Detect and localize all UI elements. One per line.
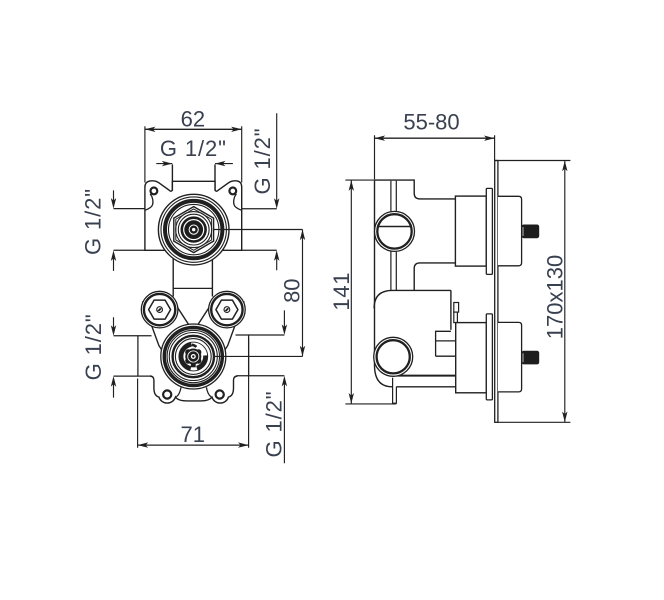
dimension 55-80 line [375, 137, 495, 139]
mounting plate top valve [145, 181, 242, 250]
wall plate [495, 161, 498, 423]
dimension G1/2 nipple line right tail [215, 163, 233, 165]
dimension 80 line [302, 230, 304, 357]
svg-text:62: 62 [181, 107, 205, 132]
plate screw hole right [216, 390, 224, 398]
plate inner contour right [206, 387, 211, 397]
G1/2 dim arrows lower-left port [113, 317, 115, 397]
vertical pipe between valves [173, 251, 212, 297]
plate inner contour left [176, 387, 181, 397]
V body lower valve [143, 297, 244, 370]
plate screw hole left [163, 390, 171, 398]
ear S-contour right [234, 194, 242, 210]
svg-text:G 1/2": G 1/2" [250, 127, 275, 194]
svg-text:G 1/2": G 1/2" [160, 136, 227, 161]
body step bottom [414, 263, 455, 290]
notch blocks [454, 303, 459, 313]
body upper outline [375, 180, 456, 199]
centerline leader top valve [214, 229, 303, 231]
top valve circle 2 [161, 197, 226, 262]
top valve center dot [192, 228, 195, 231]
G1/2 dim arrows lower-right port [283, 310, 285, 463]
boss left hex [149, 300, 171, 319]
top valve hex outer [174, 207, 214, 253]
cartridge interface steps [436, 331, 456, 356]
svg-text:71: 71 [181, 422, 205, 447]
lower valve center [190, 353, 196, 359]
upper port circle [375, 211, 415, 251]
svg-text:80: 80 [279, 278, 304, 302]
top valve circle 5 [178, 214, 209, 245]
svg-text:G 1/2": G 1/2" [81, 313, 106, 380]
lower valve circle 5 [175, 339, 211, 375]
lower valve port stub left [114, 336, 152, 376]
top valve hex inner [176, 209, 212, 250]
svg-text:G 1/2": G 1/2" [261, 390, 286, 457]
lower flange [486, 314, 492, 400]
boss left ring [144, 294, 175, 325]
top port lower edge / plate bottom [114, 249, 277, 251]
boss right hex [216, 300, 238, 319]
upper stem [522, 225, 540, 239]
lower valve rosette [185, 349, 201, 365]
lower valve outer circle [161, 324, 226, 389]
lower valve port stub right [236, 335, 285, 376]
svg-text:170x130: 170x130 [542, 255, 567, 339]
dimension 62 line [145, 128, 242, 130]
top valve dark disc [181, 216, 207, 242]
G1/2 dim arrows top-left port [113, 190, 115, 271]
internal pipe lines upper [391, 181, 396, 212]
extension line right of 62 [241, 126, 243, 182]
top valve circle 3 [169, 204, 219, 254]
boss right ring [211, 294, 242, 325]
upper port slot chord [378, 226, 411, 228]
ear hole left [151, 188, 158, 195]
drain tab [393, 378, 397, 403]
top valve outer circle [158, 194, 229, 265]
thread nipple sides [172, 164, 215, 190]
G1/2 dim arrows top-right port [276, 113, 278, 270]
body left edge with bottom fillet [375, 180, 456, 387]
bottom plate outline [150, 376, 237, 403]
ear hole right [229, 188, 236, 195]
lower valve claw arc B [197, 355, 206, 368]
upper cartridge cylinder [455, 196, 486, 266]
lower valve circle 3 [167, 330, 219, 382]
lower valve dark ring [164, 328, 222, 386]
svg-text:G 1/2": G 1/2" [81, 188, 106, 255]
dimension 71 extension lines [138, 338, 249, 448]
lower body right edge [450, 290, 452, 329]
dimension 71 line [138, 444, 249, 446]
svg-text:141: 141 [329, 272, 354, 311]
bottom plate fill [150, 376, 237, 403]
lower valve claw arc A [181, 345, 191, 369]
lower port circle [374, 337, 413, 376]
extension line left of 62 [144, 126, 146, 182]
lower cap [498, 322, 522, 392]
dimension 170x130 extensions [495, 161, 571, 423]
top port left upper edge [114, 208, 145, 210]
svg-text:55-80: 55-80 [403, 109, 459, 134]
lower valve dark ring 2 [173, 336, 214, 377]
dimension 170x130 line [564, 161, 566, 423]
top valve dark ring [165, 201, 222, 258]
dimension 141 extensions [345, 180, 396, 404]
centerline leader lower valve [214, 355, 303, 357]
lower body top edge and corner [374, 290, 451, 308]
boss left outer [141, 291, 178, 328]
boss right outer [209, 291, 246, 328]
top port right upper edge [242, 208, 277, 210]
lower valve circle 4 [169, 333, 217, 381]
upper cap [498, 196, 522, 265]
ear S-contour left [145, 194, 153, 210]
foot ledge line [393, 375, 456, 377]
lower stem [522, 351, 540, 365]
lower valve inner thin circle [179, 342, 208, 371]
dimension 141 line [350, 180, 352, 404]
boss left center [157, 307, 163, 313]
upper flange [486, 188, 492, 274]
boss right center [224, 307, 230, 313]
lower cartridge cylinder [456, 323, 487, 393]
dimension G1/2 nipple line left tail [156, 163, 172, 165]
internal pipe lines mid [391, 252, 396, 291]
top valve white ring [184, 220, 204, 240]
lower valve key tab [191, 360, 196, 368]
extension lines 55-80 [375, 135, 495, 179]
lower body top edge between bosses [173, 287, 212, 289]
top valve circle 4 [176, 212, 212, 248]
